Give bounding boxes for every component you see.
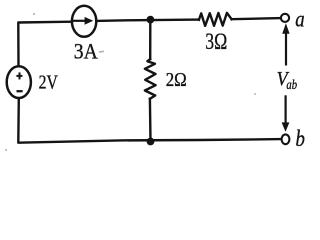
svg-text:ab: ab [286, 78, 297, 93]
svg-text:2Ω: 2Ω [166, 69, 187, 91]
svg-text:2V: 2V [39, 72, 59, 94]
svg-text:3A: 3A [74, 38, 99, 63]
svg-text:3Ω: 3Ω [205, 29, 227, 54]
svg-text:a: a [295, 7, 304, 33]
svg-text:b: b [296, 126, 305, 151]
